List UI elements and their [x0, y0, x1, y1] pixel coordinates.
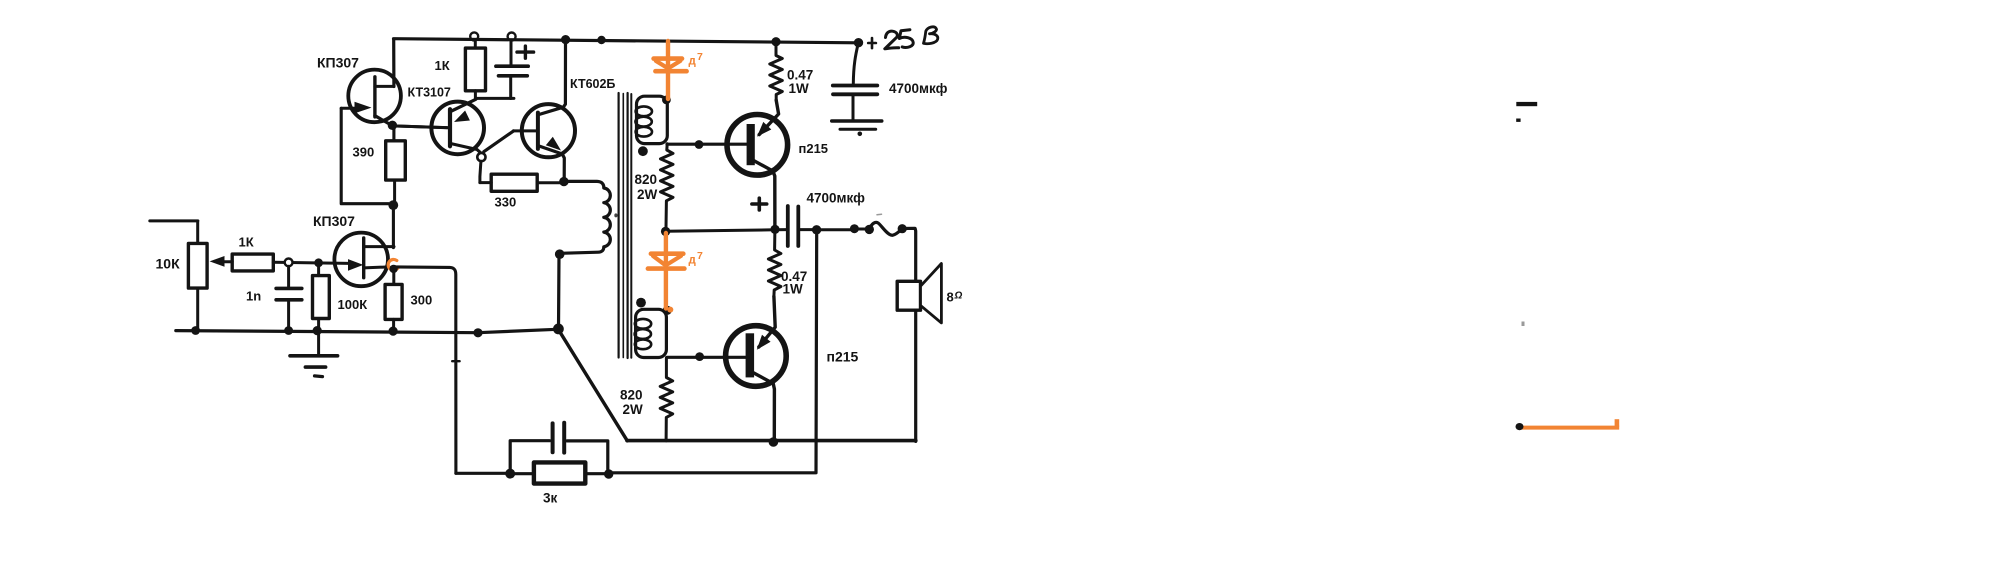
ground symbol	[317, 331, 320, 356]
output node wire	[666, 230, 786, 232]
node dot 330/KT602B emitter/primary	[559, 177, 568, 186]
wire input stub top-left	[150, 221, 198, 244]
svg-text:820: 820	[620, 388, 643, 403]
feedback wire from output down	[609, 230, 817, 473]
svg-text:820: 820	[635, 172, 658, 187]
node dot KP307 upper source	[388, 121, 397, 130]
resistor 1K (input)	[232, 254, 273, 271]
resistor 1K (top)	[474, 40, 477, 48]
svg-text:4700мкф: 4700мкф	[807, 191, 866, 206]
svg-text:1W: 1W	[789, 81, 810, 96]
resistor 100K	[317, 263, 320, 276]
handwritten V (Cyrillic B)	[924, 27, 938, 44]
gate return loop wire	[341, 108, 388, 203]
node dot KP307 lower source	[389, 265, 397, 273]
bottom emitter bus	[627, 439, 916, 443]
wire output to speaker with squiggle	[817, 228, 855, 231]
ground of filter cap	[832, 119, 882, 122]
tick mark on feedback column	[452, 360, 459, 362]
node dot below 390	[388, 200, 398, 210]
bootstrap capacitor	[508, 33, 516, 41]
node dot bus right end	[553, 324, 564, 335]
svg-text:д: д	[689, 56, 697, 68]
plus sign of coupling cap	[752, 198, 767, 210]
svg-text:КТ602Б: КТ602Б	[570, 77, 615, 91]
resistor 300	[392, 269, 395, 284]
ground bus	[176, 329, 557, 332]
potentiometer 10K	[188, 243, 207, 288]
phasing dot lower	[636, 298, 646, 308]
transistor P215 upper	[727, 115, 788, 176]
svg-text:10К: 10К	[156, 256, 181, 272]
tiny mark near core	[614, 213, 617, 217]
svg-text:1W: 1W	[783, 282, 804, 297]
svg-text:КП307: КП307	[317, 55, 359, 71]
node dot lower diode top	[661, 227, 670, 236]
svg-text:300: 300	[411, 293, 433, 308]
resistor 820 2W lower (zigzag)	[660, 358, 673, 441]
hollow node circle at KT3107 collector	[477, 153, 485, 161]
wire emitter node to cap bottom	[476, 97, 514, 100]
svg-text:1К: 1К	[239, 235, 254, 250]
svg-text:330: 330	[495, 195, 517, 210]
svg-text:п215: п215	[799, 141, 829, 156]
stray orange underline bottom right	[1520, 426, 1619, 430]
wire 1K to gate node	[273, 262, 348, 263]
svg-text:7: 7	[697, 250, 703, 262]
orange arc marker at source	[388, 259, 398, 270]
svg-text:8: 8	[947, 290, 954, 305]
supply terminal dot	[854, 38, 863, 47]
svg-text:2W: 2W	[637, 187, 658, 202]
node dot secondary lower top-right	[663, 306, 672, 315]
wire primary return down to bus	[557, 254, 561, 329]
plus sign of bootstrap cap	[517, 46, 534, 58]
speaker	[897, 281, 920, 310]
capacitor 1n	[287, 266, 290, 288]
junction dots on bus	[191, 326, 200, 335]
JFET KP307 upper	[348, 70, 401, 123]
svg-text:д: д	[689, 255, 697, 267]
svg-text:п215: п215	[827, 349, 859, 365]
svg-text:КТ3107: КТ3107	[408, 86, 451, 100]
stray mark dot top right	[1516, 119, 1520, 122]
stray mark dash top right	[1516, 102, 1537, 106]
node dot primary bottom	[555, 249, 565, 259]
svg-text:390: 390	[353, 145, 375, 160]
resistor 0.47 1W upper (zigzag)	[770, 42, 783, 100]
resistor 3k	[456, 472, 510, 475]
top supply rail	[394, 39, 859, 43]
transformer secondary upper	[637, 96, 668, 143]
node dot 3k right	[604, 469, 613, 478]
svg-text:1n: 1n	[246, 289, 261, 304]
handwritten 2	[885, 31, 899, 49]
transformer core	[617, 93, 619, 358]
capacitor 4700mkf coupling	[786, 206, 790, 246]
node open circle (1n tap)	[285, 259, 293, 267]
transistor KT3107	[431, 102, 484, 155]
resistor 0.47 1W lower (zigzag)	[768, 230, 781, 296]
node dot feedback tap	[812, 225, 821, 234]
resistor 390	[392, 125, 395, 141]
wiper arrow of 10K	[210, 256, 225, 267]
phasing dot upper	[638, 146, 648, 156]
node dot secondary upper top-right	[662, 96, 671, 105]
resistor 330	[480, 181, 491, 184]
handwritten plus 25V	[868, 38, 876, 48]
transformer secondary lower	[636, 309, 667, 357]
svg-text:7: 7	[697, 51, 703, 63]
svg-text:Ω: Ω	[954, 291, 963, 302]
svg-text:4700мкф: 4700мкф	[889, 81, 948, 96]
feedback RC: capacitor branch	[510, 441, 549, 474]
stray dot on rail	[597, 36, 605, 44]
resistor 820 2W upper (zigzag)	[661, 144, 674, 228]
svg-text:КП307: КП307	[313, 213, 355, 229]
diagonal wire bus to emitter bus	[559, 330, 628, 441]
node dot output/collector junction	[770, 225, 779, 234]
squiggle loop in wire	[869, 222, 902, 235]
diode D7 upper (orange)	[654, 41, 687, 99]
diode D7 lower (orange)	[648, 233, 685, 313]
svg-text:1К: 1К	[435, 58, 450, 73]
node dot 100K top	[314, 258, 323, 267]
svg-text:3к: 3к	[543, 491, 558, 506]
stray faint mark mid right	[1522, 322, 1525, 327]
transformer primary winding	[560, 181, 610, 253]
handwritten 5	[899, 30, 913, 48]
JFET KP307 lower	[334, 233, 388, 287]
cross-coupling diagonal wire	[484, 131, 514, 152]
transistor P215 lower	[726, 326, 787, 387]
transistor KT602B	[522, 104, 575, 157]
svg-text:2W: 2W	[623, 402, 644, 417]
wire source to feedback column	[394, 267, 456, 473]
capacitor 4700mkf filter	[853, 44, 858, 85]
wire 10K bottom to ground bus	[196, 288, 199, 330]
faint dash above squiggle	[877, 213, 882, 216]
node dot KT602B collector on rail	[561, 35, 570, 44]
svg-text:100К: 100К	[338, 297, 368, 312]
